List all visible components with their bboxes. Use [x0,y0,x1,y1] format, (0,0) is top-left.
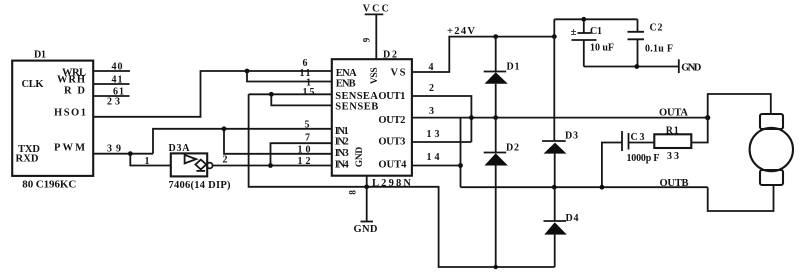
wire motor top loop [708,94,771,118]
node PWM branch [128,151,133,156]
node OUT1/OUTA [469,115,474,120]
svg-text:0.1u F: 0.1u F [645,44,673,55]
svg-text:C2: C2 [650,23,663,34]
wire PWM pin 39 [93,153,153,155]
svg-text:D4: D4 [566,213,579,224]
capacitor C3 plates [621,131,623,151]
wire +24V top to C1/C2 [554,18,637,20]
svg-text:OUTA: OUTA [659,107,689,118]
capacitor C1 [583,19,585,33]
node C1 top [581,17,586,22]
svg-text:3: 3 [429,106,434,117]
svg-text:GND: GND [354,224,378,235]
node OUT4/OUTB [458,163,463,168]
wire OUTB line [461,186,708,188]
svg-text:WRH: WRH [57,75,85,86]
wire to IN3 pin 10 [224,129,332,154]
svg-text:D1: D1 [34,50,46,61]
wire PWM to IN1 pin 5 [153,129,332,154]
open-collector diamond [195,160,206,170]
ground bar [361,221,374,223]
node OUTA/motor/snubber [705,115,710,120]
wire C1/C2 bottom to GND [584,66,679,68]
svg-text:±: ± [571,26,577,38]
svg-text:OUTB: OUTB [660,178,690,189]
svg-text:RXD: RXD [16,153,39,164]
svg-text:2: 2 [429,83,434,94]
driver box U-D2 L298N [332,59,412,176]
inverter triangle [185,155,197,164]
svg-text:41: 41 [112,74,123,85]
wire WRH pin 41 [93,83,130,85]
node OUTB/D3-D4 [552,185,557,190]
svg-text:GND: GND [355,147,365,168]
node +24V corner [552,34,557,39]
svg-text:80 C196KC: 80 C196KC [22,179,76,191]
svg-text:2: 2 [223,155,228,166]
wire RD pin 61 [93,95,130,97]
node gate output branch [268,163,273,168]
svg-text:10 uF: 10 uF [590,43,614,54]
diode D3 [553,19,555,141]
node snubber/OUTB [600,185,605,190]
node SENSEA/SENSEB tie [269,92,274,97]
svg-text:7: 7 [305,132,310,143]
svg-text:5: 5 [305,119,310,130]
svg-text:R1: R1 [666,126,679,137]
motor top terminal [760,114,783,129]
node ENA/ENB tie [245,69,250,74]
wire SENSEB pin 15 [271,94,332,105]
inverter output bubble [207,163,213,169]
wire ENB branch [247,71,332,82]
node +24V / D1 rail [493,34,498,39]
wire WRL pin 40 [93,70,130,72]
wire to IN2 pin 7 [271,143,332,165]
wire sense net down and along bottom [249,94,555,267]
svg-text:IN3: IN3 [335,148,349,159]
svg-text:VSS: VSS [370,68,380,85]
wire OUT2 pin 3 = OUTA line [412,117,708,119]
diode D1 [495,37,497,72]
node OUTA/D1-D2 rail [493,115,498,120]
svg-text:C1: C1 [590,26,602,37]
wire SENSEA pin 1 [249,93,332,95]
wire OUT4 pin 14 [412,165,461,167]
open-collector underline [196,170,205,172]
diode D2 [484,152,507,154]
wire OUT3 jog vertical [460,118,462,188]
svg-text:D3: D3 [565,131,578,142]
svg-text:IN1: IN1 [335,126,349,137]
svg-text:8: 8 [348,190,358,195]
svg-text:L298N: L298N [372,178,411,189]
wire R1 to C3 [629,142,655,144]
svg-text:OUT1: OUT1 [378,91,405,102]
node IN1/IN3 tie [222,126,227,131]
resistor R1 [654,134,691,148]
svg-text:1: 1 [145,156,150,167]
wire HSO1 pin 23 to ENA/ENB [93,71,332,117]
svg-text:VS: VS [391,67,406,78]
ground bar (top right) [678,59,680,73]
wire VS pin 4 to +24V [412,37,554,72]
svg-text:D1: D1 [507,61,520,72]
svg-text:VCC: VCC [363,3,389,14]
svg-text:IN4: IN4 [335,160,350,171]
svg-text:SENSEB: SENSEB [335,101,378,112]
svg-text:D2: D2 [383,50,397,61]
motor bottom terminal [760,170,783,185]
GND pin 8 lead [366,176,368,222]
svg-text:C3: C3 [631,132,645,143]
node D2 rail / bottom line [494,265,498,269]
svg-text:4: 4 [429,62,434,73]
node C2 bottom [634,64,639,69]
svg-text:+24V: +24V [447,26,475,37]
svg-text:7406(14 DIP): 7406(14 DIP) [169,180,232,191]
diode D4 [554,187,556,221]
svg-text:9: 9 [362,37,372,42]
wire gate output pin 2 to IN4 pin 12 [213,165,332,167]
wire OUT1 pin 2 [412,96,472,142]
wire gate input pin 1 [130,154,171,166]
svg-text:IN2: IN2 [335,137,349,148]
MCU box U-D1 80C196KC [12,61,93,176]
motor body [750,128,793,171]
wire motor bottom loop [708,185,774,211]
wire snubber drop [691,118,707,143]
svg-text:OUT3: OUT3 [378,137,405,148]
svg-text:ENB: ENB [336,78,356,89]
wire OUT3 pin 13 [412,141,472,143]
svg-text:D2: D2 [506,142,519,153]
svg-text:OUT4: OUT4 [378,160,407,171]
capacitor C2 [637,19,639,32]
wire C3 to OUTB [602,143,622,188]
VCC symbol [365,13,384,15]
svg-text:1000p F: 1000p F [627,153,660,164]
node sense/GND pin junction [364,184,369,189]
svg-text:40: 40 [112,62,123,73]
svg-text:PWM: PWM [54,143,85,154]
svg-text:CLK: CLK [22,79,45,90]
svg-text:OUT2: OUT2 [378,115,405,126]
svg-text:D3A: D3A [169,143,191,154]
svg-text:GND: GND [681,62,701,73]
inverter D3A box 7406 [171,153,207,176]
